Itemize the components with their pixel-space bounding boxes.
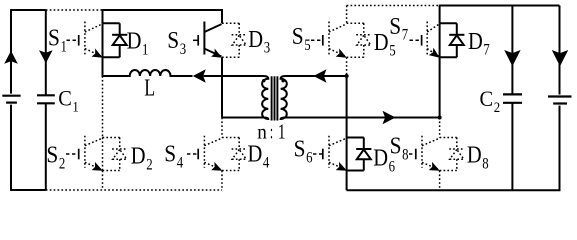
wire dotted top-left rail — [46, 9, 103, 11]
wire top rail S1-to-S3 — [103, 9, 223, 11]
label S2 — [46, 142, 65, 173]
svg-text:3: 3 — [264, 40, 271, 57]
svg-text:5: 5 — [389, 43, 396, 60]
svg-text:S: S — [48, 25, 60, 52]
transistor S7 (IGBT, off/dotted) — [410, 22, 440, 58]
svg-text:S: S — [390, 133, 402, 160]
svg-text:1: 1 — [142, 41, 148, 58]
svg-text:D: D — [248, 141, 263, 168]
wire S6 cell to bottom-right rail — [346, 171, 348, 191]
svg-text:D: D — [467, 142, 482, 169]
svg-text:2: 2 — [494, 100, 500, 116]
diode D1 — [112, 23, 127, 57]
svg-text:D: D — [248, 26, 263, 53]
label D5 — [374, 29, 396, 60]
svg-text:D: D — [131, 143, 146, 170]
diode D2 (dotted, off) — [103, 138, 128, 171]
inductor L — [103, 70, 193, 76]
wire dotted secondary top rail — [347, 5, 439, 7]
wire dotted S8 cell to bottom rail — [439, 171, 441, 191]
svg-text:7: 7 — [402, 27, 409, 44]
DC load source V2 (right battery) — [548, 6, 572, 192]
DC source V1 (left battery) — [2, 10, 20, 190]
transformer TX secondary winding — [281, 76, 440, 119]
svg-text:2: 2 — [146, 157, 152, 174]
svg-text:D: D — [374, 29, 389, 56]
svg-text:2: 2 — [59, 156, 65, 173]
wire rail to S3 collector — [221, 9, 223, 23]
svg-text:S: S — [389, 13, 401, 40]
junction node secondary top / leg C midpoint — [345, 74, 349, 78]
secondary polarity dot — [281, 79, 284, 82]
wire S3 emitter down to primary bottom node — [221, 57, 223, 117]
label D7 — [468, 28, 490, 59]
wire secondary bottom lead — [290, 117, 440, 119]
wire secondary top rail solid — [439, 5, 560, 7]
transformer TX core — [272, 76, 278, 120]
wire leg C midpoint down to S6 cell — [346, 76, 348, 138]
svg-text:S: S — [294, 136, 306, 163]
wire secondary top lead — [290, 75, 347, 77]
wire dotted S2 cell to bottom rail — [102, 171, 104, 191]
capacitor C1 — [37, 10, 55, 190]
current arrow down C1 branch — [39, 50, 53, 63]
transformer TX primary winding — [221, 76, 268, 119]
current arrow on primary wire (left) — [193, 69, 206, 83]
primary polarity dot — [262, 79, 265, 82]
label D1 — [127, 28, 149, 59]
wire S1 emitter to node P1 — [102, 57, 104, 77]
wire primary bottom lead — [222, 117, 262, 119]
wire rail to D7 cell — [439, 6, 441, 24]
current arrow on secondary bottom lead (right) — [383, 111, 396, 125]
diode D3 (dotted, off) — [222, 23, 247, 57]
svg-text:D: D — [373, 144, 388, 171]
label n:1 turns ratio — [257, 120, 285, 144]
label S4 — [164, 140, 183, 171]
transistor S3 (IGBT, conducting/solid) — [193, 22, 222, 58]
transistor S5 (IGBT, off/dotted) — [311, 22, 347, 58]
svg-text:6: 6 — [306, 150, 313, 167]
wire primary node to transformer top — [204, 75, 263, 77]
svg-text:6: 6 — [389, 158, 396, 175]
svg-text::: : — [270, 120, 273, 144]
svg-text:8: 8 — [402, 147, 409, 164]
svg-text:S: S — [167, 27, 179, 54]
label C1 — [58, 86, 79, 116]
diode D6 cell loop (conducting) — [347, 138, 364, 171]
wire top-left rail solid — [10, 9, 46, 11]
svg-text:D: D — [127, 28, 142, 55]
diode D7 cell loop (conducting) — [440, 23, 457, 57]
svg-text:1: 1 — [61, 38, 67, 55]
wire dotted midpoint to S8 cell — [439, 118, 441, 138]
label S6 — [294, 136, 313, 167]
wire bottom-left rail solid — [10, 189, 46, 191]
label S3 — [167, 27, 186, 58]
label S7 — [389, 13, 408, 44]
wire dotted node to S4 cell — [221, 118, 223, 138]
svg-text:1: 1 — [278, 120, 286, 144]
transistor S1 (IGBT, off/dotted) — [67, 22, 103, 58]
diode D5 (dotted, off) — [347, 23, 372, 57]
svg-text:S: S — [46, 142, 58, 169]
wire D7 cell down to leg D midpoint — [439, 57, 441, 117]
current arrow into source (up) — [4, 51, 18, 64]
transistor S2 (IGBT, off/dotted) — [66, 136, 103, 171]
wire dotted S4 to bottom rail — [221, 171, 223, 191]
diode D1 cell loop (conducting) — [103, 23, 120, 57]
label S1 — [48, 25, 67, 56]
svg-text:C: C — [480, 86, 494, 111]
diode D6 — [356, 138, 371, 171]
svg-text:4: 4 — [177, 154, 184, 171]
svg-text:n: n — [257, 120, 267, 144]
svg-text:S: S — [292, 23, 304, 50]
wire dotted bottom-left rail — [46, 189, 222, 191]
label C2 — [480, 86, 501, 116]
diode D7 — [449, 23, 464, 57]
wire bottom-right rail — [347, 189, 560, 191]
svg-text:D: D — [468, 28, 483, 55]
wire dotted S5 emitter to midpoint — [346, 57, 348, 75]
svg-text:8: 8 — [482, 156, 489, 173]
svg-text:4: 4 — [263, 155, 270, 172]
svg-text:C: C — [58, 86, 72, 111]
current arrow on secondary top lead (left) — [314, 69, 327, 83]
label L — [144, 75, 155, 102]
label D2 — [131, 143, 153, 174]
current arrow down C2 branch — [504, 50, 520, 66]
transistor S4 (IGBT, off/dotted) — [187, 136, 222, 171]
svg-text:1: 1 — [72, 99, 78, 115]
svg-text:3: 3 — [180, 41, 187, 58]
label S8 — [390, 133, 409, 164]
diode D4 (dotted, off) — [222, 138, 247, 171]
junction node secondary bottom / leg D midpoint — [438, 115, 442, 119]
label D4 — [248, 141, 270, 172]
transistor S8 (IGBT, off/dotted) — [409, 136, 440, 171]
svg-text:S: S — [164, 140, 176, 167]
svg-text:L: L — [144, 75, 155, 102]
label D6 — [373, 144, 395, 175]
svg-text:5: 5 — [304, 37, 311, 54]
transistor S6 (IGBT, off/dotted) — [313, 136, 347, 171]
wire dotted node P1 to S2 cell — [102, 76, 104, 138]
label D8 — [467, 142, 489, 173]
label S5 — [292, 23, 311, 54]
svg-text:7: 7 — [483, 42, 490, 59]
capacitor C2 — [503, 6, 522, 191]
wire dotted rail to S5 cell — [346, 6, 348, 24]
label D3 — [248, 26, 270, 57]
current arrow down right branch — [552, 50, 568, 66]
wire rail to S1 cell top — [102, 9, 104, 23]
diode D8 (dotted, off) — [440, 138, 465, 171]
